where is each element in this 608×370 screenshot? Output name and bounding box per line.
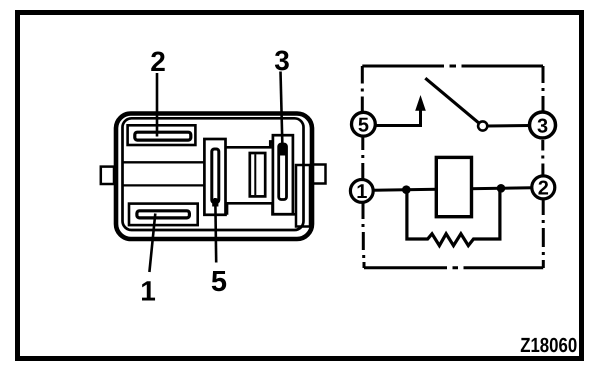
unused middle slot inner line: [254, 154, 256, 195]
terminal 3 column: [273, 135, 293, 214]
relay boundary dash-dot left lower: [363, 204, 364, 269]
svg-text:3: 3: [537, 115, 548, 137]
svg-text:2: 2: [538, 178, 549, 200]
resistor branch with zigzag: [407, 188, 500, 245]
svg-text:5: 5: [211, 266, 227, 298]
leader 3 tip blob: [280, 145, 286, 156]
center step top edge: [226, 142, 273, 148]
relay boundary dash-dot right middle: [541, 140, 544, 175]
terminal 5 slot: [212, 149, 219, 203]
wire terminal 5 to switch arm: [376, 110, 421, 126]
wire terminal 1 to terminal 2: [373, 188, 531, 191]
right latch strip: [296, 165, 310, 227]
unused middle slot: [250, 153, 265, 196]
right mounting tab: [311, 165, 326, 184]
face rib line upper: [123, 161, 205, 163]
junction dot right: [497, 184, 506, 193]
relay body outer outline: [116, 114, 312, 240]
terminal 5 column: [204, 139, 225, 215]
terminal 1 circle: [350, 180, 373, 203]
face rib line lower: [123, 184, 205, 186]
relay body inner outline: [123, 118, 304, 230]
terminal 3 slot: [279, 144, 287, 200]
relay boundary dash-dot left upper: [361, 66, 364, 111]
svg-text:3: 3: [274, 45, 290, 76]
svg-text:5: 5: [358, 115, 369, 137]
leader line 1: [149, 214, 155, 273]
svg-text:1: 1: [356, 181, 367, 203]
terminal 1 recess: [129, 204, 198, 226]
relay boundary dash-dot left middle: [361, 138, 364, 179]
wire contact to terminal 3: [488, 124, 530, 128]
junction dot left: [402, 185, 411, 194]
terminal 5 circle: [352, 112, 376, 136]
switch fixed contact: [478, 121, 487, 130]
terminal 2 recess: [128, 125, 196, 145]
leader line 5: [214, 198, 217, 263]
leader 5 tip blob: [212, 199, 218, 207]
terminal 2 circle: [532, 176, 555, 199]
switch arm arrowhead: [415, 95, 426, 111]
relay boundary dash-dot top: [362, 65, 543, 68]
terminal 3 circle: [530, 112, 556, 138]
leader line 2: [156, 73, 159, 137]
leader line 3: [281, 72, 283, 151]
switch blade: [425, 78, 478, 123]
svg-text:1: 1: [140, 276, 156, 307]
left mounting tab: [101, 167, 114, 184]
relay boundary dash-dot right upper: [542, 66, 545, 111]
svg-text:2: 2: [150, 46, 166, 77]
svg-text:Z18060: Z18060: [520, 334, 577, 357]
terminal 1 slot: [137, 211, 190, 218]
center step bottom edge: [227, 203, 296, 215]
coil box: [436, 157, 471, 216]
terminal 2 slot: [135, 132, 191, 140]
relay boundary dash-dot bottom: [364, 266, 543, 269]
relay boundary dash-dot right lower: [542, 200, 545, 269]
